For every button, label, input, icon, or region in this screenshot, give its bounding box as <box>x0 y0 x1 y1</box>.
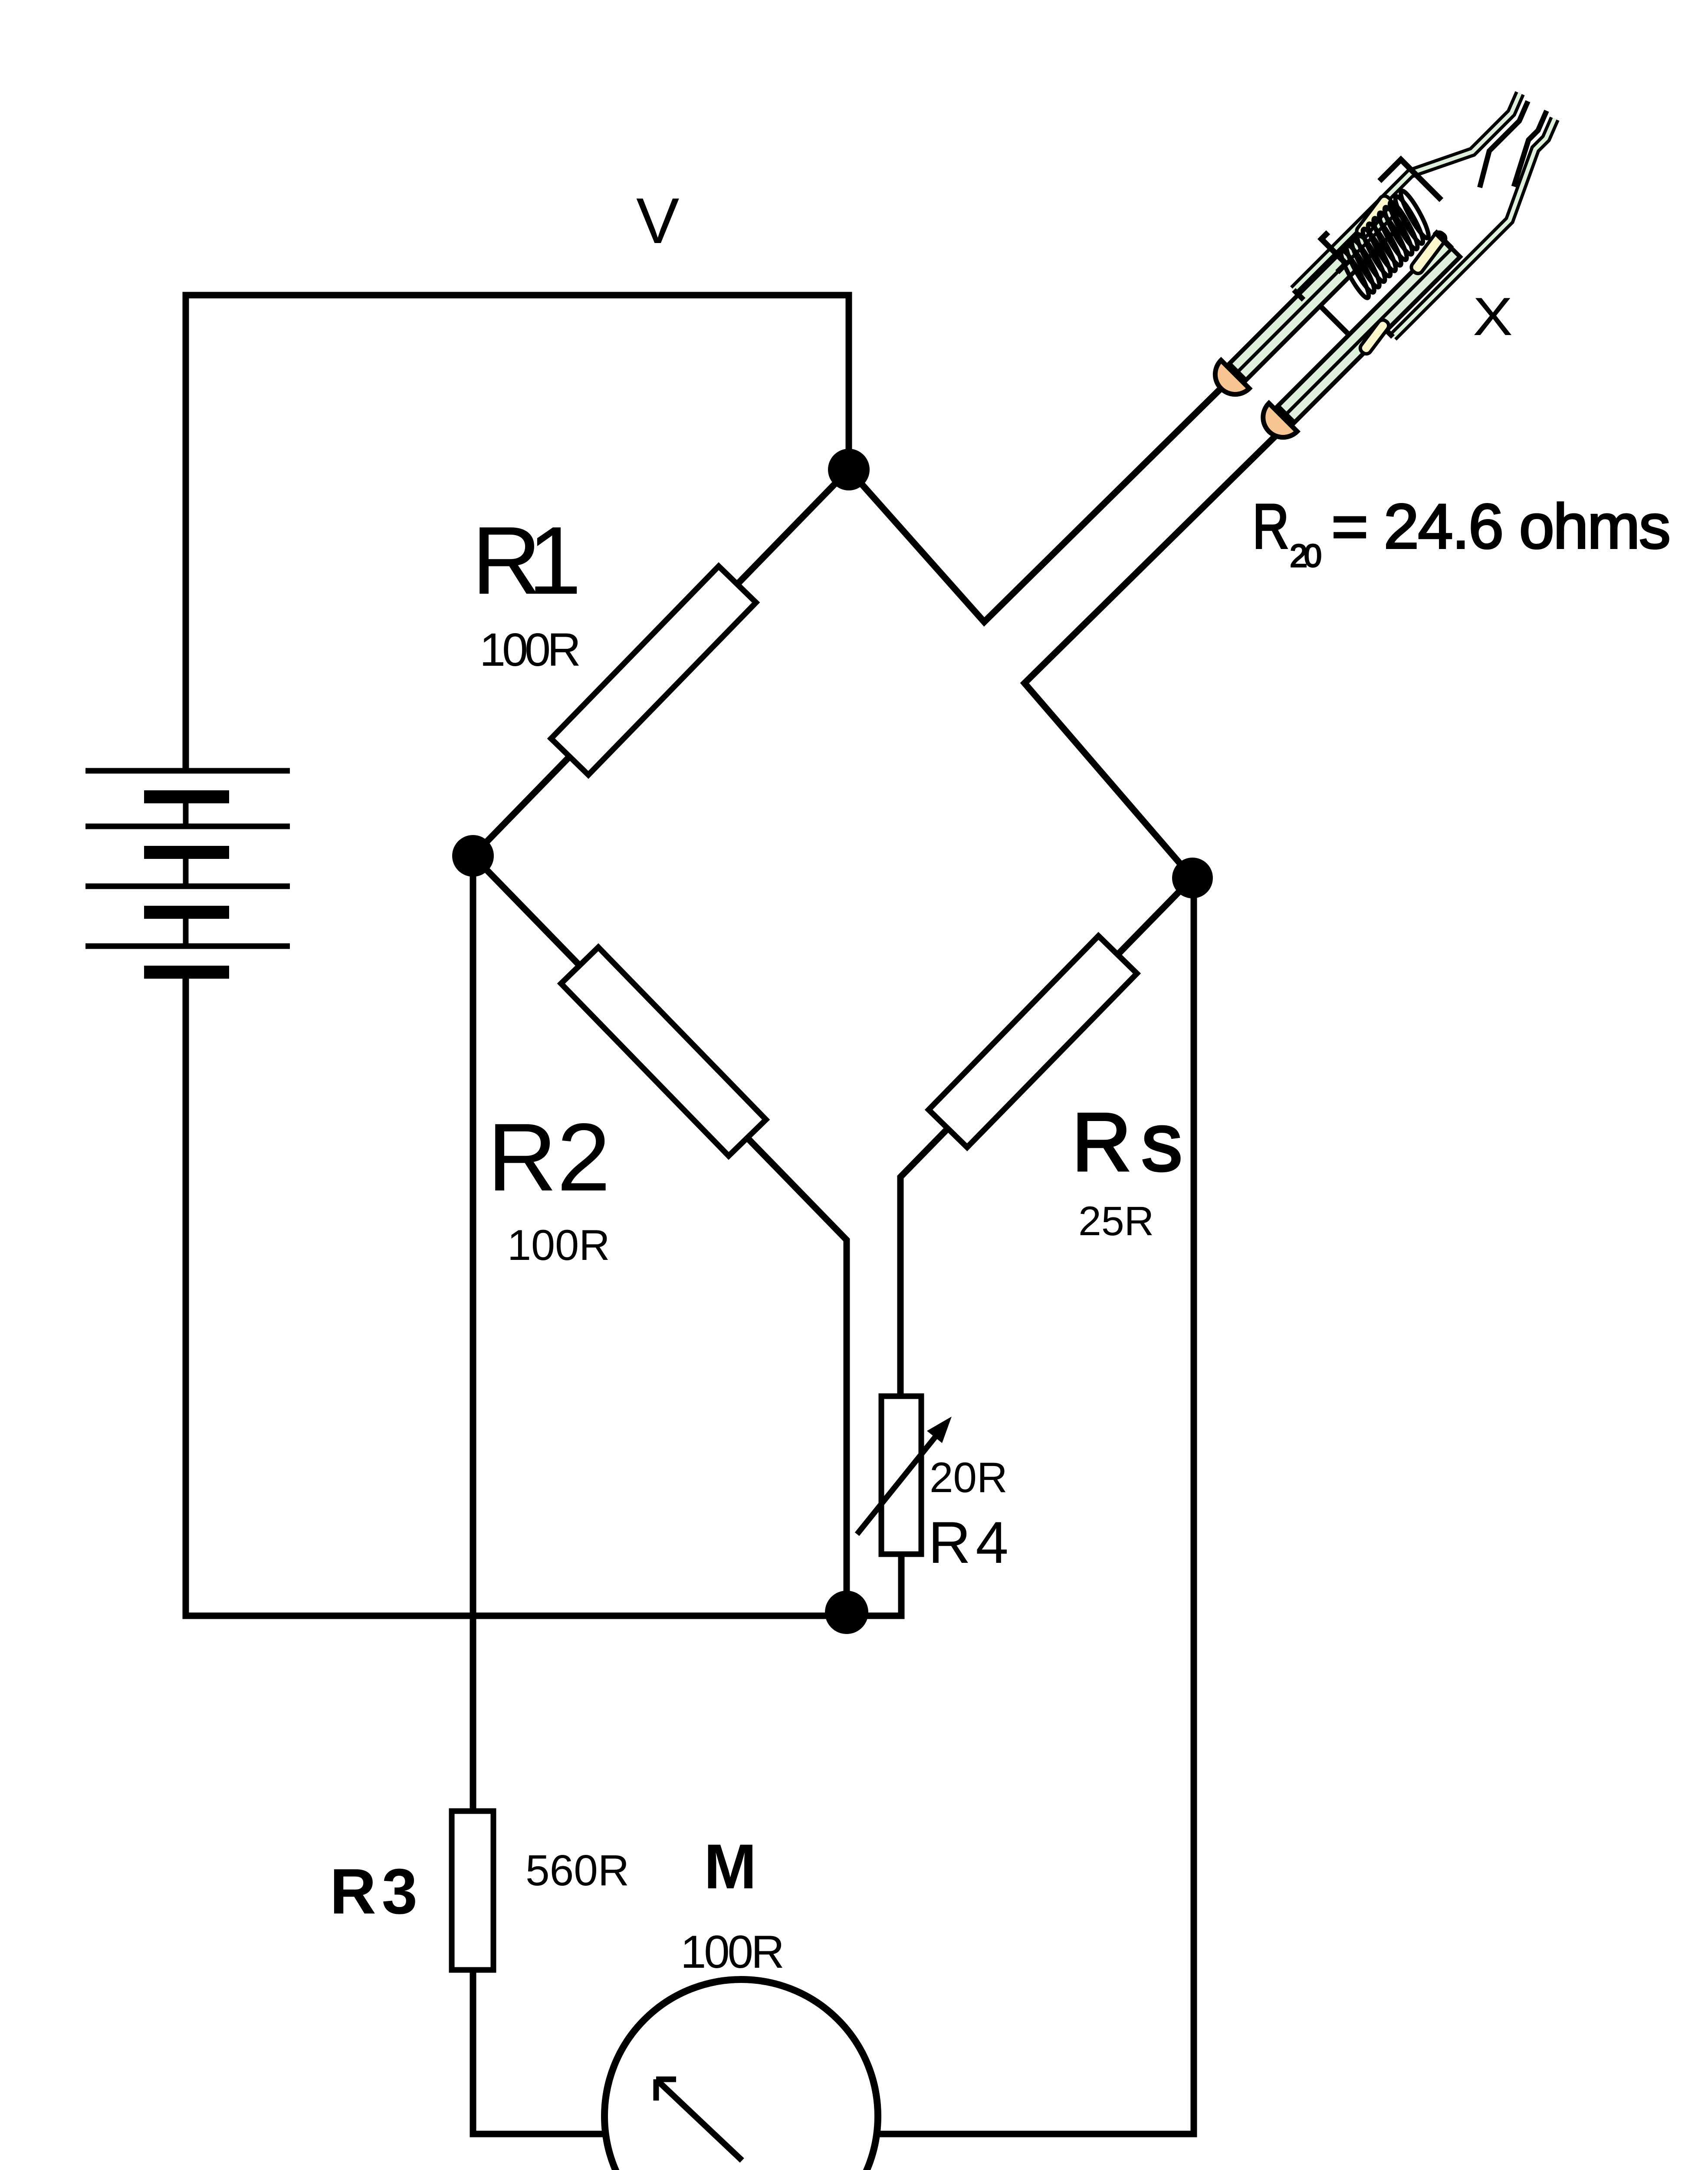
svg-text:V: V <box>636 184 679 257</box>
svg-text:R1: R1 <box>472 507 581 615</box>
svg-text:25R: 25R <box>1078 1198 1154 1244</box>
svg-text:100R: 100R <box>680 1926 785 1978</box>
svg-text:M: M <box>704 1831 757 1902</box>
svg-text:100R: 100R <box>480 623 581 676</box>
svg-text:100R: 100R <box>507 1221 610 1269</box>
svg-text:R4: R4 <box>928 1509 1008 1575</box>
svg-text:R: R <box>1252 491 1289 562</box>
svg-text:R3: R3 <box>330 1856 417 1927</box>
svg-text:X: X <box>1473 287 1513 347</box>
svg-text:Rs: Rs <box>1072 1096 1182 1188</box>
svg-text:20R: 20R <box>930 1453 1008 1501</box>
svg-text:R2: R2 <box>487 1104 611 1211</box>
svg-text:560R: 560R <box>526 1846 629 1895</box>
svg-text:20: 20 <box>1290 538 1322 574</box>
svg-text:= 24.6 ohms: = 24.6 ohms <box>1331 491 1671 562</box>
